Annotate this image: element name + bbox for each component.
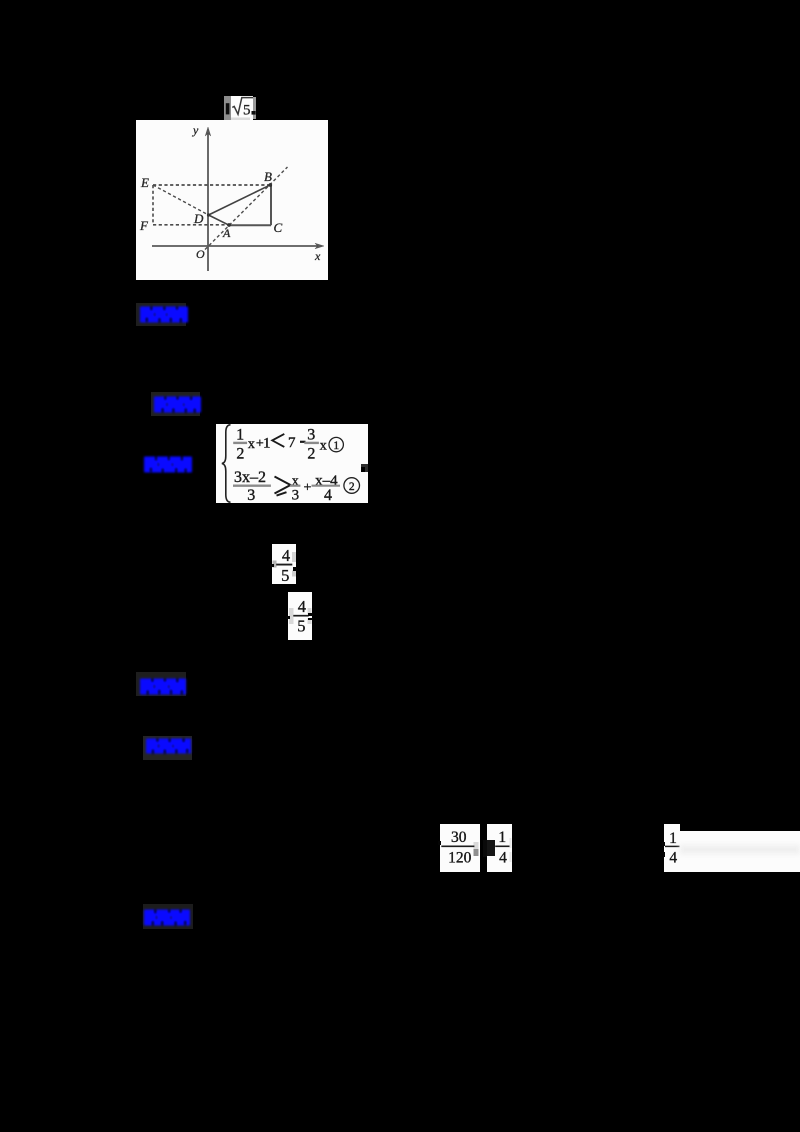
svg-text:A: A	[222, 226, 231, 240]
blue label 2 background	[151, 392, 200, 416]
svg-text:F: F	[139, 218, 149, 233]
svg-text:4: 4	[669, 849, 677, 866]
svg-text:4: 4	[324, 487, 332, 503]
svg-text:7: 7	[288, 435, 296, 451]
svg-text:x: x	[320, 439, 327, 454]
blue label 6	[144, 909, 190, 931]
coordinate-plane figure box	[136, 120, 328, 280]
solid segment CB	[270, 185, 272, 225]
solid segment DB	[209, 185, 271, 215]
svg-text:3: 3	[307, 426, 315, 443]
svg-text:2: 2	[236, 445, 244, 462]
svg-text:O: O	[196, 247, 205, 261]
sqrt(5) expression block "2√5"	[224, 96, 256, 120]
blue label 1 background	[136, 303, 186, 326]
svg-text:C: C	[274, 220, 283, 235]
tick left of right 1/4	[662, 842, 665, 846]
dashed segment EF	[152, 185, 154, 225]
x-axis	[152, 245, 320, 247]
svg-text:1: 1	[236, 426, 244, 443]
svg-text:x: x	[314, 249, 321, 263]
equals blob between 30/120 and 1/4	[483, 840, 495, 857]
y-axis	[207, 132, 209, 271]
solid segment AC	[229, 224, 271, 226]
blue label 6 background	[143, 904, 193, 929]
solid segment DA	[209, 215, 230, 225]
svg-text:3x–2: 3x–2	[234, 469, 266, 486]
tick left of 30/120	[438, 841, 441, 845]
svg-text:1: 1	[669, 830, 677, 847]
svg-text:4: 4	[282, 546, 290, 565]
svg-text:5: 5	[297, 617, 305, 636]
tick left of first 4/5	[270, 564, 274, 567]
blue label 3	[144, 456, 192, 478]
blue label 5 background	[143, 736, 192, 760]
white strip to page right edge	[680, 831, 800, 872]
tick left of second 4/5	[286, 616, 290, 619]
big left brace	[222, 425, 231, 502]
blue label 4	[140, 678, 186, 700]
point A dot	[227, 223, 230, 226]
svg-text:B: B	[264, 169, 272, 184]
svg-text:3: 3	[292, 488, 300, 504]
point B dot	[269, 183, 272, 186]
blue label 5	[146, 738, 191, 759]
fraction 4/5 (first)	[272, 544, 296, 584]
svg-text:5: 5	[243, 103, 251, 119]
svg-text:y: y	[192, 123, 199, 137]
svg-text:2: 2	[307, 445, 315, 462]
blue label 4 background	[136, 672, 186, 696]
svg-text:1: 1	[498, 829, 506, 846]
fraction 1/4 (middle)	[487, 824, 512, 872]
custom >= glyph	[275, 477, 291, 494]
svg-text:2: 2	[349, 481, 355, 493]
svg-text:120: 120	[448, 849, 472, 866]
dashed segment F to C line	[153, 224, 229, 226]
svg-text:1: 1	[263, 436, 271, 452]
dashed diagonal line through O A B	[205, 167, 288, 250]
svg-text:D: D	[193, 211, 204, 226]
equals marks right of second 4/5	[308, 613, 313, 616]
dashed segment EB	[153, 184, 270, 186]
svg-text:E: E	[140, 175, 149, 190]
svg-text:5: 5	[281, 566, 289, 584]
svg-text:1: 1	[333, 440, 339, 452]
fraction 1/4 (right)	[664, 824, 680, 872]
fraction 4/5 (second)	[288, 592, 312, 640]
svg-text:4: 4	[499, 849, 507, 866]
blue label 2	[154, 396, 201, 418]
blue label 1	[140, 306, 188, 328]
svg-text:3: 3	[247, 487, 255, 503]
svg-text:30: 30	[451, 829, 467, 846]
small cursor artifact square right of equation box	[361, 464, 368, 472]
tick right of first 4/5	[293, 567, 298, 572]
svg-text:4: 4	[298, 597, 306, 616]
svg-text:x: x	[248, 437, 255, 452]
point D dot	[207, 214, 210, 217]
inequality-system equation box	[216, 424, 368, 503]
dashed segment ED	[153, 185, 209, 215]
svg-text:+: +	[303, 481, 311, 496]
fraction 30/120	[440, 824, 480, 872]
